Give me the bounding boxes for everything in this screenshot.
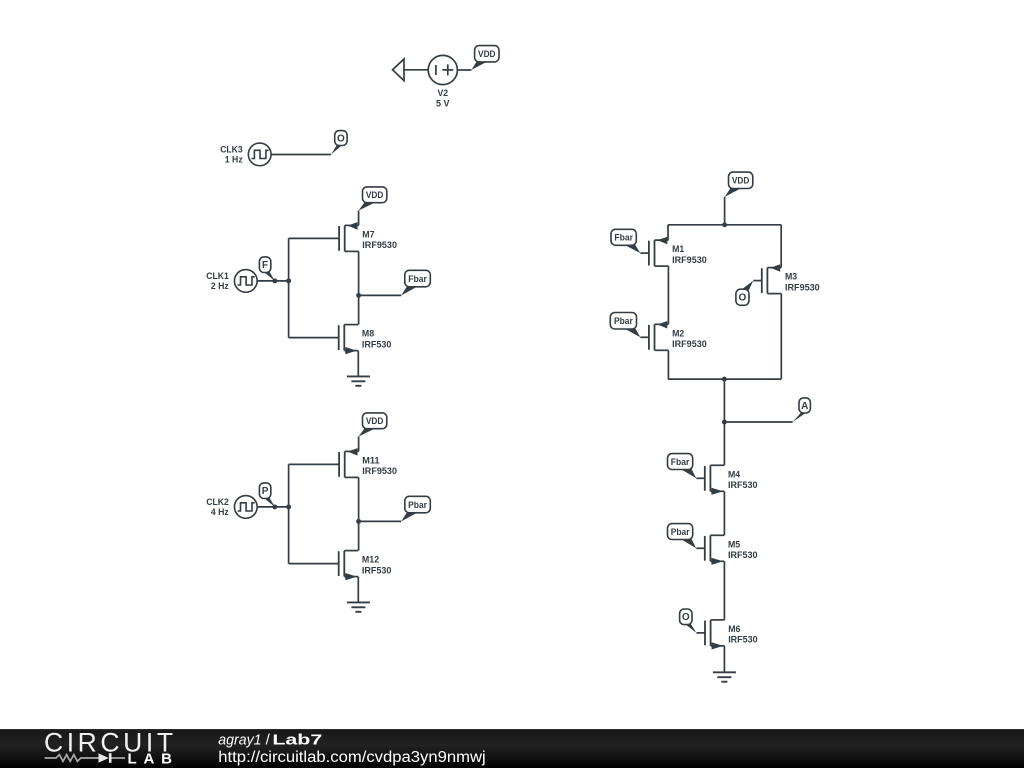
clock source CLK1: CLK1 2 Hz [206, 270, 257, 293]
svg-text:IRF530: IRF530 [728, 550, 758, 561]
wire M6 source to ground [723, 646, 725, 672]
svg-text:IRF9530: IRF9530 [672, 339, 707, 350]
wire output node to M8 drain [358, 295, 360, 324]
flag Pbar at M5 gate [668, 524, 697, 549]
svg-text:1 Hz: 1 Hz [225, 154, 243, 165]
transistor M8 (IRF530 NMOS) [289, 325, 392, 355]
flag Fbar at M4 gate [668, 454, 697, 479]
wire M12 source to ground [357, 577, 359, 603]
svg-text:IRF530: IRF530 [728, 635, 758, 646]
flag O at M3 gate [736, 281, 753, 306]
svg-text:VDD: VDD [366, 190, 384, 201]
wire M3 drain to bottom rail [780, 294, 782, 380]
flag VDD at V2 [472, 46, 500, 70]
transistor M4 (IRF530 NMOS) [696, 465, 757, 495]
transistor M12 (IRF530 NMOS) [289, 551, 392, 581]
junction VDD on top rail [722, 222, 727, 227]
clock source CLK2: CLK2 4 Hz [206, 496, 257, 519]
wire pull-up network to node A [723, 379, 725, 422]
flag P [259, 483, 274, 507]
svg-text:http://circuitlab.com/cvdpa3yn: http://circuitlab.com/cvdpa3yn9nmwj [218, 749, 485, 766]
flag Pbar [401, 496, 430, 521]
svg-text:VDD: VDD [478, 49, 496, 60]
wire V2 negative lead [404, 69, 428, 71]
flag VDD at M11 [359, 413, 387, 437]
transistor M3 (IRF9530 PMOS) [753, 264, 819, 293]
ground below M12 [347, 602, 370, 611]
wire output to Fbar flag [359, 294, 402, 296]
flag Fbar [401, 270, 430, 295]
svg-text:IRF9530: IRF9530 [672, 255, 707, 266]
svg-text:IRF9530: IRF9530 [362, 240, 397, 251]
svg-text:M1: M1 [672, 244, 685, 255]
svg-text:Fbar: Fbar [408, 274, 427, 285]
svg-text:V2: V2 [437, 88, 448, 99]
svg-text:Pbar: Pbar [671, 527, 690, 538]
flag Pbar at M2 gate [610, 313, 640, 338]
svg-text:VDD: VDD [366, 416, 384, 427]
wire output node to M12 drain [358, 521, 360, 550]
wire V2 positive lead [457, 69, 471, 71]
svg-text:Lab7: Lab7 [272, 731, 322, 748]
junction node A [722, 420, 727, 425]
junction F flag anchor [272, 278, 277, 283]
flag A [793, 398, 811, 422]
wire CLK3 to O flag [271, 154, 331, 156]
flag O at CLK3 [331, 131, 347, 155]
svg-text:Pbar: Pbar [408, 500, 427, 511]
flag F [259, 257, 274, 281]
svg-text:M6: M6 [728, 624, 740, 635]
transistor M1 (IRF9530 PMOS) [640, 237, 706, 266]
svg-text:M5: M5 [728, 539, 741, 550]
wire M7 source to VDD [358, 211, 360, 226]
wire M2 drain to bottom rail [667, 350, 669, 379]
wire VDD to top rail [724, 197, 726, 225]
wire M8 source to ground [357, 351, 359, 377]
wire gate bus vertical [288, 238, 290, 337]
svg-text:Fbar: Fbar [614, 233, 633, 244]
junction P flag anchor [272, 504, 277, 509]
svg-text:M8: M8 [362, 329, 374, 340]
wire top rail [668, 224, 781, 226]
ground below M6 [713, 672, 736, 681]
transistor M7 (IRF9530 PMOS) [289, 222, 397, 251]
wire CLK1 to gate bus [257, 280, 288, 282]
flag Fbar at M1 gate [611, 229, 640, 253]
svg-text:VDD: VDD [732, 176, 750, 187]
junction output node [356, 293, 361, 298]
svg-text:LAB: LAB [128, 751, 173, 768]
svg-text:M12: M12 [362, 555, 379, 566]
wire bottom rail [668, 378, 781, 380]
svg-text:M7: M7 [362, 229, 374, 240]
ground below M8 [347, 376, 370, 385]
svg-text:2 Hz: 2 Hz [211, 281, 229, 292]
net flag (unnamed, V- terminal of V2) [393, 59, 405, 81]
junction gate bus [286, 278, 291, 283]
wire CLK2 to gate bus [257, 506, 288, 508]
wire M5 source to M6 drain [723, 561, 725, 620]
node A wire [724, 421, 792, 423]
svg-text:F: F [262, 260, 268, 271]
wire M4 source to M5 drain [723, 491, 725, 535]
transistor M5 (IRF530 NMOS) [696, 535, 757, 565]
wire M11 drain to output node [358, 477, 360, 521]
wire rail to M3 source [780, 225, 782, 268]
svg-text:5 V: 5 V [436, 99, 450, 110]
svg-text:IRF530: IRF530 [362, 339, 392, 350]
svg-text:4 Hz: 4 Hz [211, 507, 229, 518]
CircuitLab logo resistor-diode glyph [45, 755, 126, 762]
junction bottom rail [722, 377, 727, 382]
transistor M2 (IRF9530 PMOS) [640, 321, 706, 350]
wire gate bus vertical [288, 464, 290, 563]
svg-text:A: A [801, 401, 808, 412]
svg-text:Pbar: Pbar [614, 316, 633, 327]
flag VDD at complex gate [725, 172, 753, 197]
voltage source V2 (5 V) [428, 55, 457, 109]
svg-text:IRF530: IRF530 [728, 480, 758, 491]
wire M7 drain to output node [358, 251, 360, 295]
junction output node [356, 519, 361, 524]
flag O at M6 gate [680, 609, 697, 633]
svg-text:M11: M11 [362, 455, 380, 466]
transistor M11 (IRF9530 PMOS) [289, 448, 397, 477]
footer bar [0, 729, 1024, 768]
svg-text:M3: M3 [785, 272, 797, 283]
junction gate bus [286, 504, 291, 509]
svg-text:IRF9530: IRF9530 [785, 282, 820, 293]
svg-text:O: O [682, 612, 690, 623]
svg-text:M2: M2 [672, 328, 684, 339]
wire node A to M4 drain [723, 422, 725, 465]
svg-text:P: P [262, 486, 269, 497]
svg-text:Fbar: Fbar [671, 457, 690, 468]
transistor M6 (IRF530 NMOS) [697, 620, 758, 650]
wire output to Pbar flag [359, 520, 402, 522]
svg-text:IRF530: IRF530 [362, 565, 392, 576]
svg-text:O: O [739, 293, 747, 304]
svg-text:IRF9530: IRF9530 [362, 466, 397, 477]
svg-text:O: O [337, 133, 345, 144]
flag VDD at M7 [359, 187, 387, 211]
wire M11 source to VDD [358, 437, 360, 452]
wire rail to M1 source [667, 225, 669, 240]
clock source CLK3: CLK3 1 Hz [220, 143, 271, 166]
svg-text:M4: M4 [728, 469, 741, 480]
wire M1 drain to M2 source [667, 266, 669, 324]
svg-text:agray1: agray1 [218, 731, 261, 748]
